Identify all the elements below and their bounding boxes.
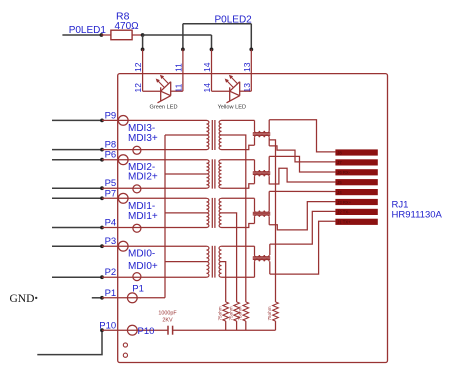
wire T1 bottom lead to choke	[222, 224, 255, 228]
pin P4 MDI1+ lead	[102, 227, 207, 229]
transformer T3 right winding	[219, 120, 221, 149]
pad J8	[335, 149, 377, 155]
pad J1	[335, 219, 377, 225]
svg-text:MDI0+: MDI0+	[128, 261, 158, 272]
wire T3 top lead to choke	[222, 119, 255, 121]
svg-text:MDI2+: MDI2+	[128, 172, 158, 183]
junction at R8 output	[141, 33, 145, 37]
pin P3 MDI0- lead	[102, 245, 207, 247]
svg-text:P7: P7	[105, 188, 117, 199]
wire choke L0 to pad J2	[270, 211, 336, 244]
svg-text:J2 TX-: J2 TX-	[337, 210, 350, 215]
svg-text:75ohm: 75ohm	[238, 306, 243, 320]
pin P6 bubble	[118, 155, 128, 165]
green LED D1	[143, 75, 183, 103]
junction P8	[100, 148, 104, 152]
transformer T0 right winding	[219, 246, 221, 277]
wire center tap bus to P1	[164, 135, 166, 298]
capacitor C1 1000pF 2KV	[158, 311, 177, 335]
wire net P6	[52, 159, 102, 161]
pin P1 bubble	[127, 293, 137, 303]
svg-text:Green LED: Green LED	[150, 104, 178, 110]
wire T3 bottom lead to choke	[222, 145, 255, 149]
pin P10 bubble	[127, 325, 137, 335]
wire T1 left tap	[165, 212, 207, 214]
pad J3	[335, 199, 377, 205]
choke L2	[253, 156, 270, 184]
junction P9	[100, 119, 104, 123]
junction P1	[100, 296, 104, 300]
wire net P2	[52, 276, 102, 278]
resistor R network 2 75ohm	[234, 302, 240, 321]
svg-text:75ohm: 75ohm	[218, 306, 223, 320]
RJ1 connector body outline	[118, 74, 388, 363]
wire net P9	[52, 119, 102, 121]
resistor R8 470ohm	[101, 11, 142, 40]
wire T2 bottom lead to choke	[222, 184, 255, 189]
pin P9 bubble	[118, 116, 128, 126]
wire net P7	[52, 197, 102, 199]
transformer T3 left winding	[207, 120, 209, 149]
wire P0LED1 to R8	[62, 34, 101, 36]
pin P4 bubble	[133, 224, 141, 232]
svg-text:MDI1+: MDI1+	[128, 211, 158, 222]
wire T3 left tap	[165, 134, 207, 136]
pin P3 bubble	[118, 241, 128, 251]
wire drop to pin 14	[211, 35, 213, 49]
wire net P1 stub	[92, 297, 102, 299]
pin P8 bubble	[133, 146, 141, 154]
wire drop to pin 12	[142, 35, 144, 49]
wire R8 net to pin14 column	[143, 34, 212, 36]
svg-text:P4: P4	[105, 218, 117, 229]
wire T1 top lead to choke	[222, 197, 255, 199]
junction P2	[100, 275, 104, 279]
junction pin 12	[141, 48, 145, 52]
wire drop to pin 11	[182, 24, 184, 50]
svg-text:J5: J5	[337, 180, 342, 185]
transformer T3 core	[211, 120, 213, 150]
svg-text:HR911130A: HR911130A	[392, 210, 443, 221]
wire net P8	[52, 149, 102, 151]
pin 12 lead	[142, 49, 144, 91]
svg-text:2KV: 2KV	[162, 318, 173, 324]
pin P7 bubble	[118, 193, 128, 203]
wire T2 top lead to choke	[222, 159, 255, 161]
resistor R network 1 75ohm	[223, 302, 229, 321]
wire R1 bottom stub	[225, 321, 227, 330]
svg-text:P2: P2	[105, 267, 117, 278]
svg-text:14: 14	[202, 83, 212, 93]
wire R4 drop	[270, 140, 276, 302]
GND net dot	[35, 297, 37, 299]
junction at R8 pin 1	[100, 33, 104, 37]
junction P6	[100, 158, 104, 162]
choke L1	[253, 191, 270, 224]
junction pin 14	[210, 48, 214, 52]
choke L0	[253, 244, 270, 277]
svg-text:GND: GND	[10, 293, 35, 305]
pin P2 bubble	[133, 273, 141, 281]
pad J6	[335, 169, 377, 175]
wire cap to resistor commons	[173, 329, 276, 331]
pin P5 bubble	[133, 185, 141, 193]
unconnected shield pin bubble 1	[123, 343, 127, 347]
wire net P3	[52, 245, 102, 247]
node P0LED1	[69, 25, 107, 36]
transformer T2 left winding	[207, 160, 210, 188]
junction pin 11	[181, 48, 185, 52]
svg-text:P1: P1	[132, 284, 144, 295]
pin P1 lead	[102, 297, 165, 299]
junction P4	[100, 226, 104, 230]
svg-text:P3: P3	[105, 236, 117, 247]
svg-text:11: 11	[174, 63, 184, 72]
wire choke L1 to pad J4	[269, 190, 335, 192]
wire T0 right tap to R network	[222, 262, 226, 302]
wire T0 top lead to choke	[222, 245, 255, 247]
pad J2	[335, 209, 377, 215]
wire T1 right tap to R network	[222, 213, 237, 302]
wire choke L0 to pad J1	[270, 221, 336, 274]
wire T2 left tap	[165, 173, 207, 175]
resistor R network 4 75ohm	[273, 302, 279, 321]
transformer T1 core	[211, 198, 213, 228]
svg-text:J8: J8	[337, 150, 342, 155]
pin P10 lead	[102, 329, 168, 331]
svg-text:13: 13	[242, 62, 252, 72]
wire R4 bottom stub	[275, 321, 277, 330]
junction P3	[100, 244, 104, 248]
resistor R network 3 75ohm	[243, 302, 249, 321]
wire T3 right tap to R network	[222, 135, 246, 302]
wire net P4	[52, 227, 102, 229]
wire net P5	[52, 187, 102, 189]
wire net P10 from bottom left	[37, 330, 102, 354]
wire drop to pin 13	[250, 24, 252, 50]
wire R3 bottom stub	[245, 321, 247, 330]
svg-text:J4: J4	[337, 190, 342, 195]
svg-text:12: 12	[133, 83, 143, 93]
svg-text:75ohm: 75ohm	[228, 306, 233, 320]
svg-text:Yellow LED: Yellow LED	[218, 104, 246, 110]
svg-text:75ohm: 75ohm	[267, 306, 272, 320]
wire T0 left tap	[165, 261, 207, 263]
svg-text:14: 14	[202, 62, 212, 72]
pin 14 lead	[211, 49, 213, 91]
wire choke L2 to pad J5	[269, 168, 335, 184]
pin P7 MDI1- lead	[102, 197, 207, 199]
pin P2 MDI0+ lead	[102, 276, 207, 278]
pin P8 MDI3+ lead	[102, 149, 207, 151]
svg-text:J6 RX-: J6 RX-	[337, 170, 350, 175]
svg-text:P9: P9	[105, 110, 117, 121]
svg-text:J3 RX+: J3 RX+	[337, 200, 351, 205]
transformer T0 left winding	[207, 246, 209, 277]
transformer T1 right winding	[219, 198, 221, 227]
junction P10	[100, 328, 104, 332]
wire R2 bottom stub	[236, 321, 238, 330]
transformer T2 core	[211, 159, 213, 188]
pin P9 MDI3- lead	[102, 119, 207, 121]
pad J5	[335, 179, 377, 185]
svg-text:MDI3+: MDI3+	[128, 133, 158, 144]
transformer T1 left winding	[207, 198, 209, 227]
svg-text:MDI0-: MDI0-	[128, 249, 155, 260]
junction P7	[100, 196, 104, 200]
junction pin 13	[249, 48, 253, 52]
junction P5	[100, 186, 104, 190]
wire choke L2 to pad J6	[269, 156, 335, 172]
wire T0 bottom lead to choke	[222, 276, 255, 278]
pin P6 MDI2- lead	[102, 159, 207, 161]
svg-text:1000pF: 1000pF	[158, 311, 177, 317]
yellow LED D2	[212, 75, 252, 103]
transformer T2 right winding	[219, 160, 222, 188]
pin 11 lead	[182, 49, 184, 91]
svg-text:470Ω: 470Ω	[115, 21, 140, 32]
unconnected shield pin bubble 2	[123, 353, 127, 357]
pin 13 lead	[250, 49, 252, 91]
pad J7	[335, 159, 377, 165]
svg-text:P10: P10	[138, 326, 155, 337]
svg-text:P6: P6	[105, 150, 117, 161]
transformer T0 core	[211, 246, 213, 278]
pad J4	[335, 189, 377, 195]
choke L3	[253, 120, 270, 146]
svg-text:J7: J7	[337, 160, 342, 165]
pin P5 MDI2+ lead	[102, 187, 207, 189]
wire P0LED2 net	[183, 23, 251, 25]
svg-text:12: 12	[133, 62, 143, 72]
svg-text:P1: P1	[105, 288, 117, 299]
wire choke L3 to pad J7	[269, 146, 335, 162]
wire choke L3 to pad J8	[269, 120, 335, 152]
wire choke L1 to pad J3	[269, 202, 335, 230]
svg-text:J1 TX+: J1 TX+	[337, 220, 351, 225]
